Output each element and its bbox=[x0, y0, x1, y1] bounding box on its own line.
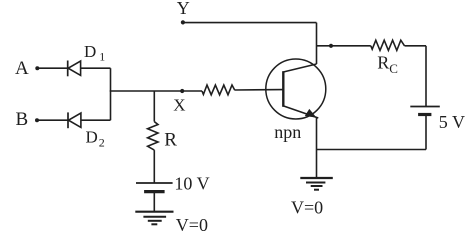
wire bbox=[110, 68, 112, 120]
battery 10 V bbox=[136, 174, 210, 194]
svg-text:1: 1 bbox=[99, 50, 105, 64]
transistor Q1 (npn) bbox=[266, 59, 326, 142]
wire bbox=[153, 150, 155, 183]
svg-text:D: D bbox=[86, 128, 98, 147]
ground bbox=[135, 212, 173, 225]
resistor (base) bbox=[202, 85, 235, 95]
wire bbox=[81, 67, 111, 69]
wire bbox=[316, 117, 318, 178]
svg-text:C: C bbox=[389, 61, 398, 76]
svg-text:5 V: 5 V bbox=[439, 112, 465, 132]
svg-text:npn: npn bbox=[274, 122, 301, 142]
ground bbox=[300, 178, 333, 190]
wire bbox=[110, 90, 202, 92]
svg-text:Y: Y bbox=[177, 0, 190, 18]
wire bbox=[235, 89, 283, 91]
wire bbox=[405, 45, 427, 47]
svg-text:V=0: V=0 bbox=[291, 198, 323, 218]
wire bbox=[425, 46, 427, 107]
svg-text:X: X bbox=[173, 95, 185, 114]
svg-text:10 V: 10 V bbox=[174, 174, 209, 194]
resistor RC bbox=[371, 40, 405, 76]
svg-text:2: 2 bbox=[99, 136, 105, 150]
wire bbox=[425, 115, 427, 150]
wire bbox=[317, 149, 427, 151]
svg-text:A: A bbox=[15, 58, 29, 79]
resistor R bbox=[148, 122, 178, 151]
diode D2 bbox=[68, 112, 105, 149]
wire bbox=[81, 119, 111, 121]
node Y bbox=[177, 0, 190, 25]
svg-text:D: D bbox=[84, 42, 96, 61]
wire bbox=[153, 192, 155, 212]
svg-text:V=0: V=0 bbox=[176, 215, 208, 235]
diode D1 bbox=[68, 42, 106, 76]
wire bbox=[37, 119, 68, 121]
node A bbox=[15, 58, 39, 79]
wire bbox=[153, 91, 155, 122]
svg-text:B: B bbox=[16, 109, 29, 130]
wire bbox=[183, 22, 317, 24]
svg-text:R: R bbox=[377, 52, 389, 72]
wire bbox=[316, 23, 318, 64]
junction bbox=[329, 44, 333, 48]
svg-text:R: R bbox=[164, 130, 177, 151]
node X bbox=[173, 89, 185, 115]
wire bbox=[37, 67, 67, 69]
wire bbox=[317, 45, 371, 47]
node B bbox=[16, 109, 40, 130]
battery 5 V bbox=[410, 107, 465, 132]
